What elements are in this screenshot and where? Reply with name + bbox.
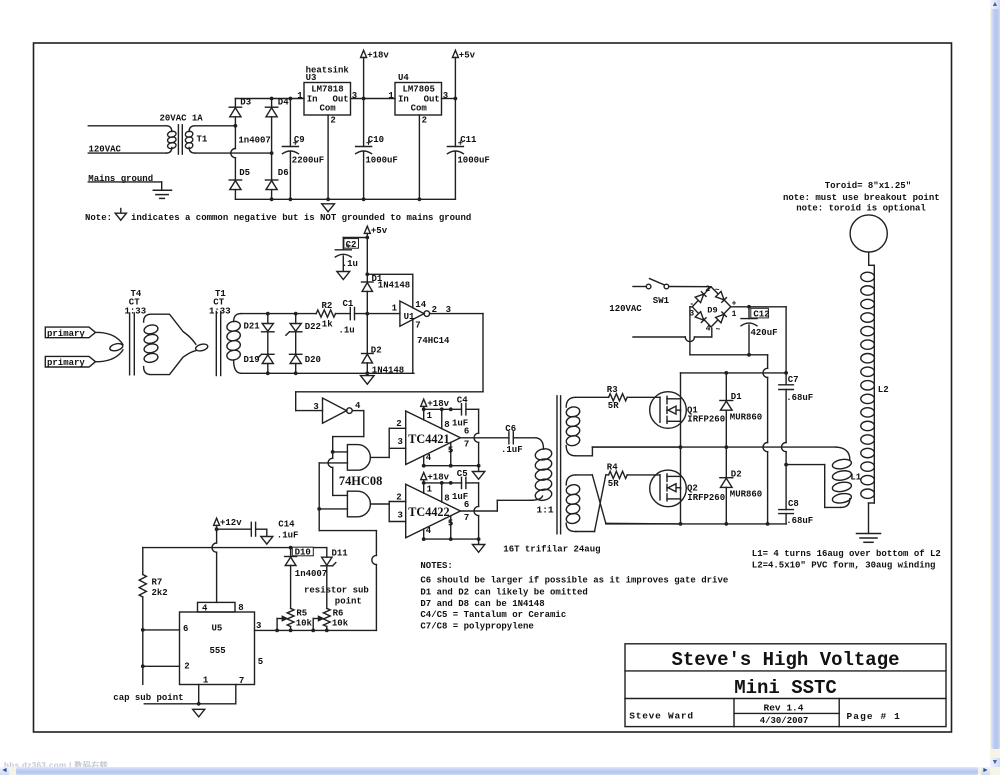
wire Q1 drain to B+ rail <box>680 373 682 412</box>
svg-text:.1u: .1u <box>339 325 355 335</box>
svg-text:C14: C14 <box>278 520 295 530</box>
wire GDT sec2 crossover X <box>576 474 593 476</box>
svg-text:C2: C2 <box>346 240 357 250</box>
wire AND1 input A <box>333 451 348 453</box>
potentiometer R6 10k <box>323 608 330 626</box>
wire 555 pin6 <box>143 629 180 631</box>
svg-text:C5: C5 <box>457 469 468 479</box>
svg-text:SW1: SW1 <box>653 296 670 306</box>
wire SW1 to bridge <box>669 286 711 288</box>
svg-text:4: 4 <box>706 325 711 334</box>
svg-text:LM7805: LM7805 <box>403 85 435 95</box>
wire C6 to GDT primary <box>513 437 536 439</box>
wire bridge plus to C12 and B+ <box>731 306 786 308</box>
svg-text:2: 2 <box>396 493 401 503</box>
pin 8 TC4422 <box>441 483 443 502</box>
wire 555 pin2 <box>143 665 180 667</box>
svg-text:C6: C6 <box>505 424 516 434</box>
svg-text:.1u: .1u <box>342 259 358 269</box>
svg-text:3: 3 <box>352 91 357 101</box>
capacitor C10 <box>363 99 365 147</box>
potentiometer R5 10k <box>287 608 294 626</box>
svg-text:Note:: Note: <box>85 213 112 223</box>
wire feedback top rail <box>241 313 316 315</box>
diode D11 <box>326 548 328 558</box>
svg-text:D20: D20 <box>305 355 321 365</box>
wire cap sub ground line <box>144 703 236 705</box>
svg-text:7: 7 <box>239 676 244 686</box>
capacitor C2 .1u <box>344 239 359 249</box>
svg-text:74HC08: 74HC08 <box>339 474 382 488</box>
transformer T1ct primary single turn <box>195 343 209 352</box>
diode D2 1N4148 <box>366 314 368 354</box>
svg-text:TC4422: TC4422 <box>408 505 449 519</box>
svg-text:In: In <box>398 94 409 104</box>
svg-text:2200uF: 2200uF <box>292 155 324 165</box>
transformer T1 power <box>166 126 172 132</box>
svg-text:MUR860: MUR860 <box>730 412 762 422</box>
power +18v TC4421 <box>421 399 427 406</box>
svg-text:L2: L2 <box>878 385 889 395</box>
svg-text:+18v: +18v <box>427 472 449 482</box>
pin 1 TC4422 <box>423 483 425 493</box>
diode D1 MUR860 <box>725 373 727 401</box>
wire C7 to midpoint hop and L1 node <box>785 390 787 443</box>
svg-text:C7: C7 <box>788 375 799 385</box>
wire B+ vertical to C7 <box>785 307 787 385</box>
svg-text:5: 5 <box>448 445 453 455</box>
svg-text:4: 4 <box>355 401 361 411</box>
svg-text:8: 8 <box>238 603 243 613</box>
capacitor C5 1uF <box>461 477 463 488</box>
svg-text:1N4148: 1N4148 <box>378 281 410 291</box>
svg-text:10k: 10k <box>296 618 313 628</box>
diode D19 <box>267 332 269 355</box>
svg-text:NOTES:: NOTES: <box>420 561 452 571</box>
svg-text:D6: D6 <box>278 168 289 178</box>
wire bottom rail <box>606 523 786 525</box>
wire U4 out <box>442 98 456 100</box>
svg-text:D2: D2 <box>371 345 382 355</box>
svg-text:Mini SSTC: Mini SSTC <box>734 677 837 699</box>
svg-text:L1: L1 <box>850 473 861 483</box>
svg-text:C10: C10 <box>368 135 384 145</box>
svg-text:7: 7 <box>464 440 469 450</box>
svg-text:note: toroid is optional: note: toroid is optional <box>796 203 926 213</box>
svg-text:TC4421: TC4421 <box>408 432 449 446</box>
svg-text:L1= 4 turns 16aug over bottom: L1= 4 turns 16aug over bottom of L2 <box>752 549 941 559</box>
resistor R3 5R <box>609 394 628 401</box>
wire rectifier bottom rail <box>235 198 455 200</box>
wire TC4421 output <box>460 437 509 439</box>
wire U1 pin7 <box>412 319 414 373</box>
wire B- vertical with hops <box>767 355 769 369</box>
wire U1 pin14 loop <box>367 273 413 275</box>
wire secondary bottom to D4 node <box>195 152 272 154</box>
svg-text:D10: D10 <box>295 548 311 558</box>
svg-text:D3: D3 <box>240 97 251 107</box>
diode D20 <box>295 332 297 355</box>
ground 555 <box>193 709 205 717</box>
svg-text:1k: 1k <box>322 320 333 330</box>
ground mains symbol <box>153 189 171 191</box>
wire T1 primary bottom <box>88 152 166 154</box>
svg-text:1000uF: 1000uF <box>365 155 397 165</box>
svg-text:R7: R7 <box>152 577 163 587</box>
svg-text:1: 1 <box>297 91 303 101</box>
svg-text:C7/C8 = polypropylene: C7/C8 = polypropylene <box>420 621 533 631</box>
svg-text:1: 1 <box>732 310 737 319</box>
svg-text:1N4148: 1N4148 <box>372 366 404 376</box>
svg-text:+18v: +18v <box>367 50 389 60</box>
svg-text:.1uF: .1uF <box>501 445 523 455</box>
svg-text:6: 6 <box>464 500 469 510</box>
svg-text:C6 should be larger if possibl: C6 should be larger if possible as it im… <box>420 576 728 586</box>
svg-text:420uF: 420uF <box>751 328 778 338</box>
resistor R4 5R <box>606 474 609 476</box>
wire B+ rail <box>681 372 787 374</box>
wire midpoint rail <box>592 446 836 448</box>
transformer T1ct secondary coil <box>226 320 241 332</box>
svg-text:120VAC: 120VAC <box>609 304 642 314</box>
capacitor C6 .1uF <box>508 432 510 444</box>
svg-text:D5: D5 <box>239 168 250 178</box>
svg-text:2: 2 <box>422 115 427 125</box>
svg-text:2: 2 <box>396 419 401 429</box>
wire AND enable from 555 <box>318 463 320 531</box>
svg-text:2: 2 <box>184 661 189 671</box>
wire TC4422 top rail <box>424 482 462 484</box>
svg-text:8: 8 <box>444 494 449 504</box>
svg-text:D22: D22 <box>305 322 321 332</box>
diode D2 MUR860 <box>725 447 727 478</box>
svg-text:3: 3 <box>398 511 403 521</box>
wire AND1 input B <box>319 462 347 464</box>
svg-text:20VAC 1A: 20VAC 1A <box>160 113 204 123</box>
node rectifier top rail <box>235 98 304 100</box>
svg-text:LM7818: LM7818 <box>311 85 343 95</box>
wire TC4421 bypass right side with hop <box>478 409 480 433</box>
wire mains ground <box>88 181 161 183</box>
ground C14 <box>261 537 273 545</box>
svg-text:1: 1 <box>392 303 398 313</box>
transformer T4 core <box>129 313 131 375</box>
svg-text:2k2: 2k2 <box>152 588 168 598</box>
capacitor C4 1uF <box>461 404 463 415</box>
svg-text:7: 7 <box>415 320 420 330</box>
wire inverter2 output to AND inputs <box>352 410 364 412</box>
svg-text:resistor sub: resistor sub <box>304 585 369 595</box>
svg-text:1: 1 <box>203 675 209 685</box>
svg-text:+12v: +12v <box>220 518 242 528</box>
ground L2 <box>857 533 881 535</box>
horizontal scrollbar <box>0 767 990 775</box>
svg-text:T1: T1 <box>197 135 208 145</box>
toroid topload <box>850 215 887 252</box>
svg-text:Steve's High Voltage: Steve's High Voltage <box>671 649 899 671</box>
power +5v at C2 <box>364 226 370 233</box>
wire L2 bottom to ground <box>869 502 875 504</box>
diode D22 <box>295 314 297 324</box>
transformer T4 primary single turn <box>109 342 123 352</box>
diode D3 <box>234 99 236 108</box>
driver U7 TC4422 <box>406 484 461 538</box>
svg-text:In: In <box>307 94 318 104</box>
svg-text:C11: C11 <box>460 135 477 145</box>
svg-text:5: 5 <box>258 657 263 667</box>
svg-text:D11: D11 <box>332 548 349 558</box>
svg-text:R4: R4 <box>607 462 618 472</box>
pin 4 TC4422 <box>423 529 425 539</box>
diode D4 <box>271 99 273 108</box>
svg-text:C8: C8 <box>788 499 799 509</box>
capacitor C8 .68uF <box>779 509 794 511</box>
wire GDT sec1 bottom to midpoint <box>576 455 593 457</box>
wire U1 output loop to inverter 2 <box>430 313 483 315</box>
svg-text:1: 1 <box>427 485 433 495</box>
svg-text:D7 and D8 can be 1N4148: D7 and D8 can be 1N4148 <box>420 599 544 609</box>
pin 8 TC4421 <box>441 409 443 428</box>
svg-text:C4: C4 <box>457 396 468 406</box>
transformer GDT primary coil <box>534 447 552 461</box>
svg-text:1n4007: 1n4007 <box>238 135 270 145</box>
svg-text:~: ~ <box>716 326 721 335</box>
svg-text:16T trifilar 24aug: 16T trifilar 24aug <box>503 544 600 554</box>
wire R7 D10 D11 rail <box>143 547 327 549</box>
svg-text:~: ~ <box>715 286 720 295</box>
power +12v <box>214 518 220 525</box>
svg-text:cap sub point: cap sub point <box>113 693 183 703</box>
wire TC4421 top rail <box>424 408 462 410</box>
svg-text:4: 4 <box>426 526 432 536</box>
wire AND2 output to TC4422 pins <box>370 503 389 505</box>
common negative symbol <box>322 204 335 212</box>
svg-text:Com: Com <box>411 104 428 114</box>
svg-text:+18v: +18v <box>427 399 449 409</box>
svg-text:5: 5 <box>448 519 453 529</box>
driver U6 TC4421 <box>406 411 461 465</box>
bridge rectifier D9 <box>692 287 731 327</box>
svg-text:2: 2 <box>330 115 335 125</box>
svg-text:74HC14: 74HC14 <box>417 336 450 346</box>
ground feedback <box>361 376 375 385</box>
svg-text:1n4007: 1n4007 <box>295 569 327 579</box>
svg-text:D19: D19 <box>244 355 260 365</box>
svg-text:primary: primary <box>47 329 85 339</box>
wire feedback bottom rail <box>241 372 414 374</box>
wire L1 bottom to C7 C8 midpoint <box>825 506 841 508</box>
power +18v <box>361 50 367 57</box>
svg-text:L2=4.5x10" PVC form, 30aug win: L2=4.5x10" PVC form, 30aug winding <box>752 561 936 571</box>
wire Q2 source to bottom rail <box>680 488 682 524</box>
svg-text:Page # 1: Page # 1 <box>847 711 901 722</box>
wire toroid stem <box>868 252 870 265</box>
svg-text:8: 8 <box>444 420 449 430</box>
wire AND2 input B <box>319 508 347 510</box>
inductor L2 secondary coil <box>873 271 875 503</box>
wire U4 com pin 2 <box>418 115 420 199</box>
svg-text:555: 555 <box>210 646 226 656</box>
wire 555 pin3 output <box>255 629 377 631</box>
wire C1 to U1 input <box>355 313 400 315</box>
svg-text:C4/C5 = Tantalum or Ceramic: C4/C5 = Tantalum or Ceramic <box>420 610 566 620</box>
wire T1 primary top <box>88 125 166 127</box>
wire B- rail <box>690 354 768 356</box>
svg-text:.68uF: .68uF <box>786 516 813 526</box>
timer U5 555 <box>180 612 255 685</box>
diode D1 1N4148 <box>362 281 374 283</box>
wire TC4422 output to GDT <box>460 510 497 512</box>
power +18v TC4422 <box>421 473 427 480</box>
svg-text:1:33: 1:33 <box>125 306 147 316</box>
svg-text:1: 1 <box>427 411 433 421</box>
transformer T4 secondary coil <box>143 324 158 335</box>
svg-text:3: 3 <box>313 402 318 412</box>
wire R4 to Q2 gate <box>627 474 660 476</box>
svg-text:+5v: +5v <box>459 50 476 60</box>
capacitor C12 420uF <box>748 307 750 319</box>
wire bridge minus down <box>689 307 691 355</box>
wire gate drive 1 <box>576 396 609 398</box>
svg-text:C12: C12 <box>753 309 769 319</box>
svg-text:indicates a common negative bu: indicates a common negative but is NOT g… <box>131 213 471 223</box>
svg-text:R6: R6 <box>333 609 344 619</box>
svg-text:U1: U1 <box>404 312 415 322</box>
svg-text:6: 6 <box>183 624 188 634</box>
svg-text:U3: U3 <box>306 73 317 83</box>
svg-text:1: 1 <box>388 91 394 101</box>
svg-text:4: 4 <box>426 453 432 463</box>
diode D6 <box>271 153 273 180</box>
svg-text:1:1: 1:1 <box>537 505 554 516</box>
svg-text:C1: C1 <box>343 299 354 309</box>
transformer GDT secondary 2 coil <box>566 475 576 485</box>
wire AND2 input A <box>333 494 348 496</box>
wire Q2 drain from midpoint <box>680 447 682 489</box>
svg-text:Rev 1.4: Rev 1.4 <box>764 703 804 714</box>
power +5v <box>452 50 458 57</box>
capacitor C9 <box>289 99 291 147</box>
svg-text:2: 2 <box>705 285 710 294</box>
svg-text:5R: 5R <box>608 479 619 489</box>
wire tags to T4 primary loop <box>96 332 123 344</box>
svg-text:D21: D21 <box>244 322 261 332</box>
svg-text:5R: 5R <box>608 401 619 411</box>
svg-text:R3: R3 <box>607 385 618 395</box>
svg-text:+5v: +5v <box>371 226 388 236</box>
and gate 74HC08 B <box>347 491 370 517</box>
wire mains lower to bridge with hop <box>633 336 685 338</box>
svg-text:U4: U4 <box>398 73 409 83</box>
svg-text:point: point <box>335 597 362 607</box>
svg-text:D1 and D2 can likely be omitte: D1 and D2 can likely be omitted <box>420 588 587 598</box>
ground TC4421 <box>472 472 484 480</box>
transistor Q1 IRFP260 <box>650 392 687 429</box>
vertical scrollbar <box>990 0 1000 767</box>
svg-text:6: 6 <box>464 427 469 437</box>
transformer GDT core <box>556 396 558 534</box>
svg-text:IRFP260: IRFP260 <box>687 414 725 424</box>
svg-text:D9: D9 <box>707 306 717 316</box>
net tag primary 1 <box>45 327 95 338</box>
resistor R2 1k <box>316 310 335 317</box>
diode D21 <box>267 314 269 324</box>
svg-text:R2: R2 <box>322 301 333 311</box>
svg-text:1:33: 1:33 <box>209 306 231 316</box>
svg-text:IRFP260: IRFP260 <box>687 493 725 503</box>
svg-text:7: 7 <box>464 513 469 523</box>
svg-text:note: must use breakout point: note: must use breakout point <box>783 193 940 203</box>
svg-text:4: 4 <box>202 604 208 614</box>
pin 4 TC4421 <box>423 456 425 466</box>
wire TC4421 bottom rail <box>424 465 479 467</box>
ground TC4422 <box>472 545 484 553</box>
svg-text:14: 14 <box>415 300 426 310</box>
transformer GDT secondary 1 coil <box>566 397 576 407</box>
capacitor C7 .68uF <box>779 384 794 386</box>
switch SW1 <box>633 286 646 288</box>
wire TC4422 bottom rail <box>424 538 479 540</box>
pin 1 TC4421 <box>423 409 425 420</box>
svg-text:Com: Com <box>320 104 337 114</box>
svg-text:10k: 10k <box>332 618 349 628</box>
and gate 74HC08 A <box>347 445 370 471</box>
svg-text:D4: D4 <box>278 97 289 107</box>
svg-text:R5: R5 <box>296 609 307 619</box>
wire D3 to D5 with hop <box>234 126 236 149</box>
svg-text:Steve Ward: Steve Ward <box>629 711 694 722</box>
transistor Q2 IRFP260 <box>650 470 687 507</box>
title block <box>625 644 946 727</box>
wire U3 com pin 2 <box>327 115 329 199</box>
svg-text:1000uF: 1000uF <box>457 155 489 165</box>
svg-text:C9: C9 <box>294 135 305 145</box>
inductor L1 <box>836 447 850 459</box>
svg-text:3: 3 <box>443 91 448 101</box>
svg-text:3: 3 <box>256 621 261 631</box>
transformer T1ct core <box>215 312 217 376</box>
wire X to bottom rail <box>606 522 681 525</box>
wire T4 secondary funnel to T1 loop <box>144 314 196 344</box>
svg-text:4/30/2007: 4/30/2007 <box>760 716 809 726</box>
wire secondary top to D3 node <box>195 125 236 127</box>
svg-text:.68uF: .68uF <box>786 393 813 403</box>
capacitor C14 .1uF <box>217 528 252 530</box>
svg-text:D1: D1 <box>731 392 742 402</box>
svg-text:U5: U5 <box>212 624 223 634</box>
svg-text:.1uF: .1uF <box>277 530 299 540</box>
svg-text:Toroid= 8"x1.25": Toroid= 8"x1.25" <box>825 181 911 191</box>
resistor R7 2k2 <box>142 548 144 575</box>
pin 5 TC4422 <box>450 516 452 539</box>
wire U3 out <box>351 98 396 100</box>
ground C2 <box>337 272 350 280</box>
watermark <box>4 760 108 771</box>
diode D10 1n4007 <box>290 548 292 557</box>
wire R3 to Q1 gate <box>627 396 660 398</box>
inverter U1b pins 3-4 <box>323 398 347 423</box>
svg-text:D2: D2 <box>731 469 742 479</box>
wire Q1 source to midpoint <box>680 410 682 447</box>
svg-text:3: 3 <box>398 437 403 447</box>
wire AND1 output to TC4421 pins <box>370 456 389 458</box>
pin 5 TC4421 <box>450 442 452 465</box>
diode D5 <box>229 179 241 181</box>
net tag primary 2 <box>45 356 95 367</box>
svg-text:primary: primary <box>47 358 85 368</box>
svg-text:MUR860: MUR860 <box>730 490 762 500</box>
inverter U1 74HC14 <box>400 301 424 326</box>
